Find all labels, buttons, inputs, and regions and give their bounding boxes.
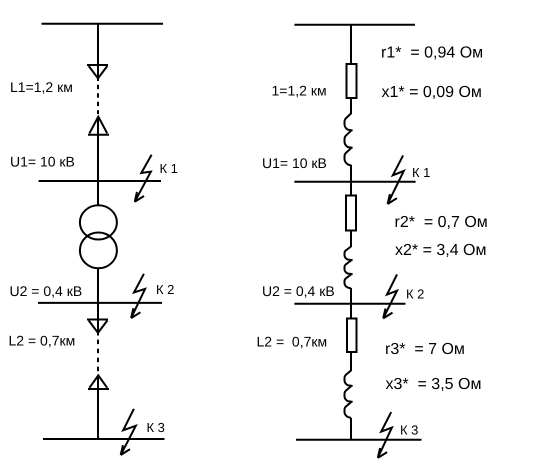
svg-text:U2 = 0,4 кВ: U2 = 0,4 кВ [262,283,335,299]
busbar U1 (left) [39,180,161,182]
svg-text:U2 = 0,4 кВ: U2 = 0,4 кВ [10,283,83,299]
fault K1 arrow (left) [135,155,152,202]
fault K3 arrow (left) [121,409,136,455]
wire from top bus to line L1 arrow [97,24,99,81]
wire from L2 arrow to bottom bus [97,376,99,440]
fault K2 arrow (right) [383,274,397,318]
wire coil x3 to bottom bus [350,418,352,440]
wire (dashed) of line L2 [97,340,99,372]
resistor r2 [346,196,356,231]
svg-text:x3* = 3,5 Ом: x3* = 3,5 Ом [386,376,482,393]
svg-text:L1=1,2 км: L1=1,2 км [10,79,73,95]
svg-text:r1* = 0,94 Ом: r1* = 0,94 Ом [381,45,483,62]
busbar top-left (source bus) [42,23,164,25]
transformer T1 (two windings) [80,205,117,268]
svg-text:r3* = 7 Ом: r3* = 7 Ом [385,341,465,358]
wire r2 to x2 coil [350,230,352,247]
wire r1 to x1 coil [350,98,352,114]
svg-text:U1= 10 кВ: U1= 10 кВ [10,154,75,170]
svg-text:x1* = 0,09 Ом: x1* = 0,09 Ом [382,84,482,101]
busbar U2 (left) [38,302,162,304]
svg-text:L2 = 0,7км: L2 = 0,7км [9,333,76,349]
wire coil x1 to bus K1 [350,165,352,196]
busbar bottom-right [296,439,422,441]
svg-text:1=1,2 км: 1=1,2 км [272,83,327,99]
resistor r3 [347,319,357,353]
busbar bottom-left [43,438,165,440]
busbar K2 (right) [294,303,405,305]
wire from transformer to bus U2 [97,269,99,336]
wire r3 to x3 coil [350,352,352,371]
busbar top-right [294,24,415,26]
svg-text:r2* = 0,7 Ом: r2* = 0,7 Ом [395,214,488,231]
svg-text:U1= 10 кВ: U1= 10 кВ [262,155,327,171]
svg-text:К 3: К 3 [147,420,165,435]
line L2 up-arrow symbol [88,375,109,389]
fault K2 arrow (left) [131,274,145,318]
fault K1 arrow (right) [388,155,404,204]
wire from L1 arrow to bus U1 [97,117,99,181]
inductor x3 coil [345,371,353,419]
svg-text:К 1: К 1 [412,165,430,180]
fault K3 arrow (right) [378,412,392,458]
svg-text:К 3: К 3 [400,423,418,438]
wire (dashed) of line L1 [97,85,99,114]
wire top bus to r1 [350,25,352,65]
line L1 down-arrow symbol [87,65,108,78]
inductor x2 coil [345,247,353,289]
line L2 down-arrow symbol [87,320,108,333]
busbar K1 (right) [294,181,415,183]
svg-text:L2 = 0,7км: L2 = 0,7км [257,334,328,350]
line L1 up-arrow symbol [88,117,109,135]
inductor x1 coil [345,114,353,166]
resistor r1 [347,64,357,98]
svg-text:К 1: К 1 [160,161,178,176]
svg-text:К 2: К 2 [156,282,174,297]
svg-text:x2* = 3,4 Ом: x2* = 3,4 Ом [395,242,487,259]
wire coil x2 to bus K2 [350,288,352,319]
svg-text:К 2: К 2 [406,287,424,302]
wire from bus U1 to transformer [97,181,99,205]
